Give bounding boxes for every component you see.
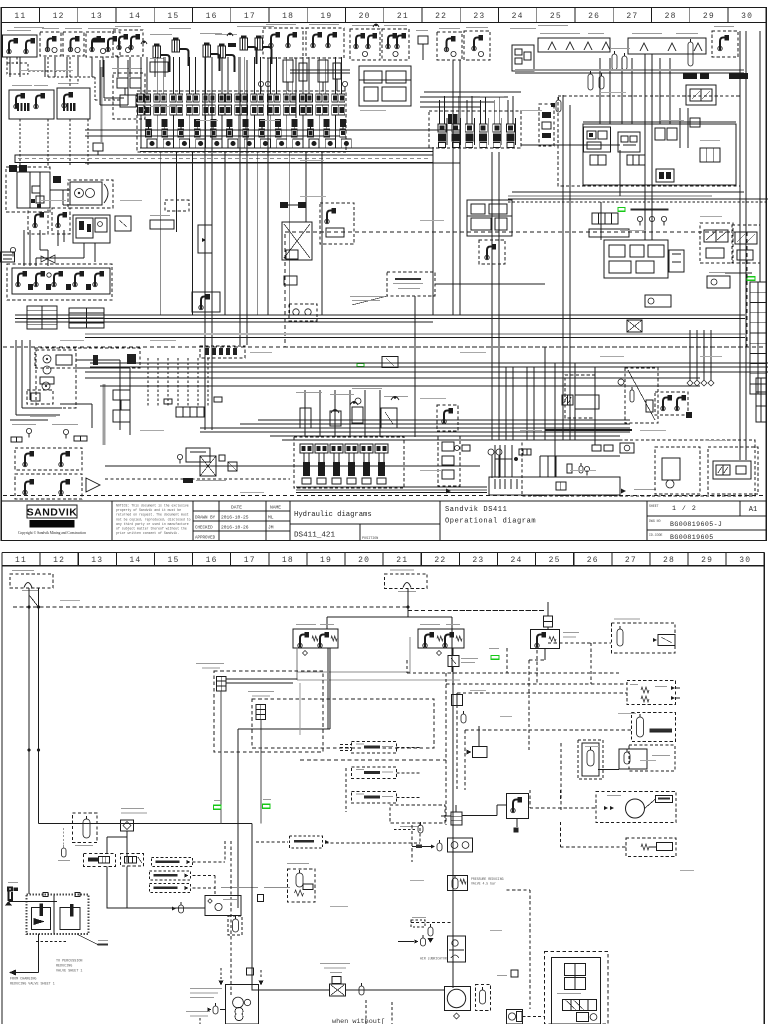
drain bank return band [296,486,487,488]
safety circuit label [14,27,44,28]
svg-text:Copyright © Sandvik Mining and: Copyright © Sandvik Mining and Construct… [18,530,86,535]
svg-text:2016-10-25: 2016-10-25 [221,515,249,521]
interlock drop stubs bottom [220,968,222,979]
gauge box mid right [645,295,671,307]
gauges row right [637,216,642,221]
main dashed region borders [285,232,747,347]
air mist device [150,62,168,72]
manifold feed verticals [599,58,601,124]
svg-text:NOTICE: This document is the e: NOTICE: This document is the exclusive [116,504,189,508]
dashed links to LP box [193,861,226,863]
interlock wiring [226,678,298,680]
wire verticals center [267,170,269,315]
dashed pilot wires below safety circuit [6,57,8,66]
interlock comb 2 [256,705,266,720]
svg-text:when without[: when without[ [332,1018,385,1024]
LP HP selector box [205,896,241,916]
svg-text:20: 20 [359,12,371,21]
air line hatch label [290,836,323,848]
compressor drain valve [476,985,491,1011]
hose label bars with hatch [152,858,193,867]
svg-text:25: 25 [550,12,562,21]
small box with cross right [627,320,642,332]
twin gauge box [448,838,473,852]
rotation sub-block 3 [655,128,665,140]
sheet 2 frame [2,552,764,554]
svg-text:29: 29 [701,556,713,565]
left edge connector [1,252,15,262]
tank feed verticals [494,445,496,477]
gray link line mid [264,887,290,889]
interlock dashed boxes [214,671,323,752]
top bells [141,41,147,44]
pressure reducing valve 4.5bar [448,876,468,891]
bottom right dashed region [522,440,755,496]
center-left block with cross [280,202,288,208]
jack valve group 1 [293,629,338,648]
svg-text:16: 16 [206,556,218,565]
highlight marker left pair [214,805,222,809]
percussion pump blocks [27,895,89,935]
scattered tiny labels page1 [20,69,42,72]
svg-text:28: 28 [665,12,677,21]
compressor oil emptying group [186,1011,210,1012]
svg-text:Operational diagram: Operational diagram [445,518,536,526]
main air verticals left [28,588,30,894]
gauge pair box [289,304,317,321]
water feed valve pair bottom [619,749,647,769]
svg-text:VALVE 4.5 bar: VALVE 4.5 bar [471,882,496,886]
nested dashed riser lines [407,672,620,674]
lubricator valve B [121,854,144,867]
bank 2 outlet [521,144,620,146]
drop wires from top boxes [9,57,11,77]
svg-text:DWG NO: DWG NO [649,519,661,523]
lubricator valve A [84,854,116,867]
bank 1 return bus [140,147,433,149]
svg-text:11: 11 [15,556,27,565]
air line lubricator right [625,368,658,423]
svg-text:APPROVED: APPROVED [195,537,216,541]
bell stem [407,588,409,617]
pilot control block center [359,66,411,106]
threading pump box [226,985,259,1024]
svg-text:SANDVIK: SANDVIK [27,507,78,519]
bank 1 drop wires to main bus [159,152,161,315]
sheet 1 frame [1,8,766,541]
svg-text:18: 18 [282,12,294,21]
svg-text:25: 25 [549,556,561,565]
pump outlet elbows [76,359,120,361]
svg-text:23: 23 [473,12,485,21]
dashed drops bottom center [411,825,413,862]
water separator [121,808,144,809]
svg-text:any third party or used in man: any third party or used in manufacture [116,522,189,526]
stabilizer block right [686,85,716,105]
sandvik logo [27,505,77,518]
valve station right [544,616,553,627]
svg-text:16: 16 [206,12,218,21]
dark label bar [631,209,669,211]
aux pump box bottom left of compressor [507,1010,523,1024]
svg-text:REDUCING VALVE SHEET 1: REDUCING VALVE SHEET 1 [10,983,55,987]
percussion control block [73,215,110,243]
cooler fan block A [655,447,700,494]
feed verticals to drain bank [304,390,306,437]
drop from interlock wires [220,809,222,824]
svg-text:26: 26 [588,12,600,21]
svg-text:DATE: DATE [231,505,242,511]
svg-text:DRAWN BY: DRAWN BY [195,517,216,521]
small gauges top center [265,81,270,86]
svg-text:15: 15 [168,556,180,565]
compressor inlet box [445,987,471,1011]
rotation right block B [589,229,629,237]
sheet 1 column header strip [1,7,766,9]
left capsule sensor [556,100,561,112]
bank 1 inlet fitting [93,143,103,151]
option dashed elbow [455,805,457,812]
water valve dashed pair [627,681,676,705]
drain arrow [86,478,100,492]
mini gauge pair [10,247,15,252]
compressor links dashed [523,1016,545,1018]
cooler fan block B [708,447,758,494]
oil cooler valve pair upper [15,448,82,470]
gray drop wire [299,683,301,735]
oscillation block [512,45,534,71]
bottom long dashed border [3,495,765,497]
rock drill lubrication block [113,73,145,119]
receiver capsule group [626,838,676,857]
svg-text:26: 26 [587,556,599,565]
svg-text:30: 30 [739,556,751,565]
relief capsule bars [352,742,397,754]
stacked valves mid-left [113,390,130,400]
svg-text:ID-CODE: ID-CODE [649,533,662,537]
svg-text:1 / 2: 1 / 2 [672,505,697,512]
small port left [258,895,264,902]
pre-bank components [300,408,311,428]
rock drill interface block [467,200,512,236]
svg-text:CHECKED: CHECKED [195,527,213,531]
right top hoses [515,69,744,71]
svg-text:14: 14 [129,556,141,565]
aux narrow group right of bank 2 [539,104,554,146]
pressure manifold left [7,264,112,300]
svg-text:17: 17 [244,12,256,21]
dark plug [183,478,193,483]
percussion return wire [38,934,40,973]
tank manifold bottom [489,477,620,495]
dark bus segment lower right [545,429,632,431]
interlock drop wires [220,691,222,824]
main heavy horizontal air line [39,823,253,825]
control valve bank 1 [137,91,346,152]
flow control mid right [390,805,445,823]
svg-text:29: 29 [703,12,715,21]
comb outlet to solenoid box [462,815,497,817]
bank 2 feed bundle [420,96,508,98]
option branch mid [412,917,426,918]
dashed control line top [13,606,408,608]
pump assembly [36,350,76,408]
highlight marker B7 [618,208,625,212]
svg-text:SHEET: SHEET [649,504,659,508]
svg-text:19: 19 [320,12,332,21]
sheet 2 column header strip [2,552,764,554]
oil cooler valve pair lower [15,474,82,499]
right edge small table [756,378,766,422]
left mid valve group A [28,208,48,234]
highlight marker center [357,363,364,367]
top row valve groups [3,35,38,57]
compressor assembly bottom right [545,952,609,1024]
tramming pilot group A [6,167,50,212]
manifold block 4 [656,169,674,182]
water cylinder group [632,713,676,742]
check valve small [284,276,297,285]
svg-text:13: 13 [91,556,103,565]
diamond fittings [687,380,693,386]
top-right pilot valve group [712,31,738,57]
bank 2 top comb [448,114,452,124]
air lubricator [448,936,466,962]
pump gauges [26,428,31,433]
svg-text:prior written consent of Sandv: prior written consent of Sandvik. [116,531,179,535]
jack valve group 2 [418,629,464,648]
title block [1,501,766,541]
data table B [69,308,104,328]
dashed drop lines [147,358,149,406]
svg-text:22: 22 [435,12,447,21]
long dashed vertical right of interlock [230,841,232,995]
water valve pair right [655,392,688,415]
left mid valve group B [52,208,70,234]
svg-text:14: 14 [129,12,141,21]
svg-text:VALVE SHEET 1: VALVE SHEET 1 [56,970,82,974]
interlock comb 1 [217,677,227,692]
svg-text:POSITION: POSITION [362,537,378,541]
check valve pair to lubricator [421,938,426,946]
manifold combs [590,155,606,165]
flushing valve block right-bottom [565,375,595,418]
dashed path from label to flow control [326,842,421,844]
aux valves right of bank [437,405,458,431]
interlock drop arrows bottom [219,981,224,986]
wire route box left of bank 1 [99,60,101,105]
highlight marker right [747,277,755,280]
check valve into gauges [437,843,442,851]
anti-jamming valve group [320,203,354,244]
control valve bank 2 [429,111,521,148]
center relief block [382,357,398,368]
jack group 2 drain fittings [437,651,442,656]
branch wires lubricator [107,836,127,838]
svg-text:15: 15 [167,12,179,21]
small vent valve [418,36,428,44]
svg-text:30: 30 [741,12,753,21]
comb small mid [452,695,463,706]
svg-text:27: 27 [625,556,637,565]
riser station combs [451,812,462,825]
svg-text:12: 12 [53,556,65,565]
jack group 1 drains [303,651,308,656]
dashed feeds to cooler [529,790,531,808]
svg-text:returned on request. The docum: returned on request. The document must [116,513,189,517]
flushing economizer box [387,272,435,296]
main long bus wires [15,314,745,316]
svg-text:A1: A1 [749,506,757,514]
air filter station [73,813,98,843]
svg-text:DS411_421: DS411_421 [294,532,335,540]
tank suction strainers [494,479,496,489]
drain valve bank [294,437,404,488]
svg-text:22: 22 [434,556,446,565]
cabin tilt comb valves [153,46,161,58]
svg-text:12: 12 [53,12,65,21]
arrow check valve mid [473,747,488,758]
small valve under LP [228,916,242,935]
svg-text:17: 17 [244,556,256,565]
svg-text:FROM CHARGING: FROM CHARGING [10,978,36,982]
tramming pilot group B [68,180,113,208]
air throttle group [612,623,676,653]
svg-text:21: 21 [397,12,409,21]
svg-text:24: 24 [512,12,524,21]
gray pressure bus left [101,67,103,142]
wire elbows from pilot groups [23,230,25,266]
greasing unit [150,220,174,229]
oiler valve [198,225,212,253]
bottom solid feed line [252,989,331,991]
gray return lines [409,637,411,672]
svg-text:13: 13 [91,12,103,21]
dashed links right station [453,610,545,612]
manifold right comb [700,148,720,162]
shank lubrication valve [479,240,505,264]
mini manifold below [176,407,204,417]
flushing control blocks right [700,223,733,263]
main pump feeds [15,340,17,415]
svg-text:TO PERCUSSION: TO PERCUSSION [56,960,82,964]
svg-text:21: 21 [396,556,408,565]
small fitting right of pumpbox [247,968,254,975]
svg-text:Hydraulic diagrams: Hydraulic diagrams [294,511,372,519]
svg-text:Sandvik DS411: Sandvik DS411 [445,506,507,514]
svg-text:28: 28 [663,556,675,565]
scattered tiny labels page2 [60,599,80,602]
solenoid comb row [592,213,618,224]
gauge pair bottom [488,449,494,455]
rotation sub-block 2 [618,132,640,152]
bottom mid fittings [455,446,460,451]
throttle feed dashed elbow [548,642,611,644]
accumulator rail right [628,38,706,54]
long cross wires upper [85,129,460,131]
pump drain dashes [36,941,68,943]
tank top fittings [567,464,572,473]
check to LP box [179,905,184,913]
air regulator block right [582,743,599,776]
solenoid stacks below boom valves [283,60,293,82]
svg-text:2016-10-26: 2016-10-26 [221,525,249,531]
checking connection group [320,963,350,964]
wires top center [267,58,269,170]
sheet info cell [647,515,766,517]
svg-text:PRESSURE REDUCING: PRESSURE REDUCING [471,877,504,881]
svg-text:not be copied, reproduced, dis: not be copied, reproduced, disclosed to [116,517,191,521]
left pilot valve pair B [57,88,90,119]
bell right [385,574,428,589]
boom lift pilot valves [263,28,303,58]
dark wire right [725,272,752,274]
left pilot valve pair A [9,90,54,119]
right side manifold area [508,195,712,197]
revision table [193,510,290,512]
svg-text:23: 23 [472,556,484,565]
svg-text:REDUCING: REDUCING [56,965,72,969]
svg-text:BG00819605-J: BG00819605-J [670,521,722,528]
svg-text:NAME: NAME [270,505,281,511]
oscillation bell left [10,574,53,588]
option line from pump block [77,934,98,945]
svg-text:24: 24 [511,556,523,565]
accumulator rail left [538,38,610,52]
percussion flushing manifold frame [583,124,736,185]
return filter group [186,448,210,462]
svg-text:of subject matter thereof with: of subject matter thereof without the [116,527,187,531]
wire bundle lower [200,427,630,429]
svg-text:19: 19 [320,556,332,565]
main heavy air bus [327,616,452,618]
svg-text:27: 27 [626,12,638,21]
hose reel capsules [612,54,617,70]
dark connector pair right [683,73,697,79]
condensate drain capsule [62,848,67,857]
gauge block right [707,276,730,288]
svg-text:18: 18 [282,556,294,565]
verticals bottom right [491,367,493,440]
aux block lower [192,292,220,312]
right edge terminal table [750,282,766,394]
solenoid box top right page2 [507,794,529,819]
oscillation valve block right [531,630,560,649]
svg-text:property of Sandvik and it mus: property of Sandvik and it must be [116,508,181,512]
pressure reducing station mid [288,869,316,902]
relief bar inlet stubs [340,744,352,746]
svg-text:20: 20 [358,556,370,565]
long dashed mid rail [300,759,446,761]
pump group upper strip [35,348,140,368]
oil cooler fan circle group [596,792,676,823]
gray return duct [103,384,106,445]
highlight marker B10 [491,656,499,660]
rotation right block A [604,240,668,278]
svg-text:JM: JM [268,525,274,531]
rotation sub-block 1 [584,127,611,152]
svg-text:11: 11 [14,12,26,21]
riser feed stub [441,815,451,817]
svg-text:BG00819605: BG00819605 [670,534,714,541]
data table A [27,306,57,329]
drain bank bells [331,410,339,414]
pump block inlet bracket [8,888,12,901]
svg-text:ML: ML [268,515,274,521]
svg-text:AIR LUBRICATOR: AIR LUBRICATOR [420,957,447,961]
small sensor box [115,216,131,231]
aux valve pair [669,250,684,272]
